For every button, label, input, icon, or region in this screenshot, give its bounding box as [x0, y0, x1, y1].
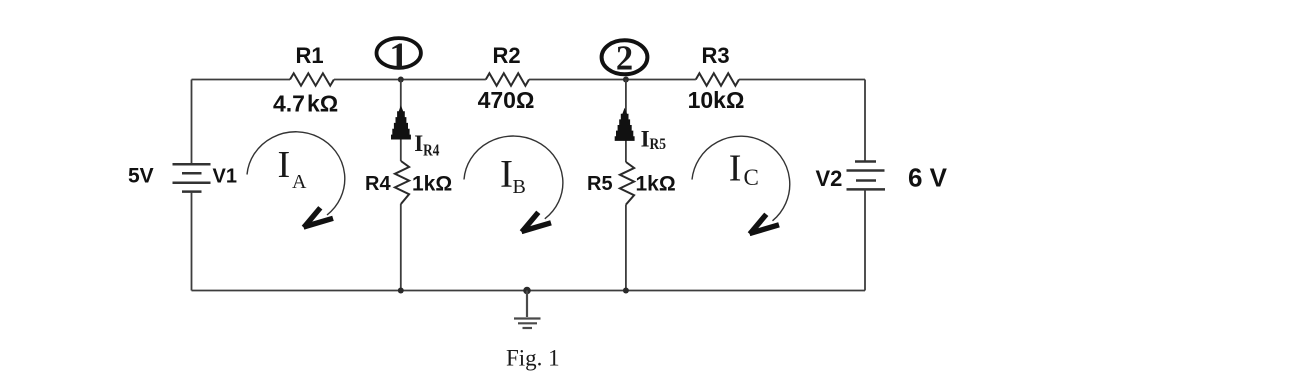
battery V1: [173, 164, 211, 191]
wire top rail right segment: [739, 79, 865, 81]
svg-text:R1: R1: [295, 43, 323, 68]
resistor R4 zigzag: [395, 161, 409, 204]
wire right rail lower: [864, 189, 866, 290]
svg-text:I: I: [500, 153, 513, 196]
wire top rail between R2 and R3: [529, 79, 696, 81]
mesh arrow IC head: [750, 214, 780, 234]
wire left rail upper: [191, 80, 193, 165]
junction dot R5 bottom: [623, 288, 629, 294]
mesh arrow IB head: [522, 212, 552, 232]
wire R4 branch upper: [400, 80, 402, 162]
wire R5 branch lower: [625, 205, 627, 291]
junction dot ground: [523, 287, 531, 295]
resistor R1 zigzag: [290, 73, 334, 85]
wire R5 branch upper: [625, 80, 627, 163]
svg-text:2: 2: [616, 40, 633, 78]
svg-text:Fig. 1: Fig. 1: [506, 346, 560, 371]
wire right rail upper: [864, 80, 866, 162]
junction dot R4 bottom: [398, 288, 404, 294]
wire left rail lower: [191, 192, 193, 291]
svg-text:IR5: IR5: [641, 127, 666, 153]
svg-text:6 V: 6 V: [908, 163, 948, 193]
svg-text:R2: R2: [492, 43, 520, 68]
current arrow IR4: [391, 105, 411, 139]
svg-text:I: I: [729, 148, 742, 190]
wire top rail left segment: [192, 79, 291, 81]
node 1 circle: [377, 38, 421, 68]
mesh current arc IA: [247, 132, 345, 215]
svg-text:V1: V1: [213, 166, 237, 188]
mesh current arc IC: [692, 136, 790, 221]
junction dot node 1: [398, 77, 404, 83]
svg-text:V2: V2: [816, 166, 843, 191]
wire bottom rail: [192, 290, 866, 292]
svg-text:470Ω: 470Ω: [478, 87, 535, 113]
svg-text:10kΩ: 10kΩ: [688, 87, 745, 113]
battery V2: [847, 162, 886, 190]
mesh arrow IA head: [304, 208, 334, 228]
ground stem: [526, 291, 528, 318]
svg-text:B: B: [513, 176, 526, 198]
svg-text:4.7kΩ: 4.7kΩ: [273, 91, 338, 117]
node 2 circle: [602, 40, 648, 74]
svg-text:5V: 5V: [128, 165, 154, 188]
svg-text:1kΩ: 1kΩ: [412, 173, 452, 196]
svg-text:R5: R5: [587, 173, 613, 195]
resistor R2 zigzag: [486, 73, 529, 85]
ground bars: [514, 319, 541, 329]
mesh current arc IB: [464, 136, 563, 219]
svg-text:1: 1: [389, 35, 408, 77]
svg-text:A: A: [292, 171, 307, 193]
resistor R3 zigzag: [696, 73, 739, 85]
svg-text:IR4: IR4: [414, 131, 440, 159]
svg-text:I: I: [278, 144, 291, 186]
svg-text:1kΩ: 1kΩ: [636, 173, 676, 196]
junction dot node 2: [623, 77, 629, 83]
svg-text:R3: R3: [701, 43, 729, 68]
svg-text:R4: R4: [365, 173, 391, 195]
wire top rail between R1 and R2: [334, 79, 486, 81]
current arrow IR5: [615, 108, 635, 141]
svg-text:C: C: [744, 165, 759, 190]
resistor R5 zigzag: [620, 162, 634, 205]
wire R4 branch lower: [400, 204, 402, 291]
